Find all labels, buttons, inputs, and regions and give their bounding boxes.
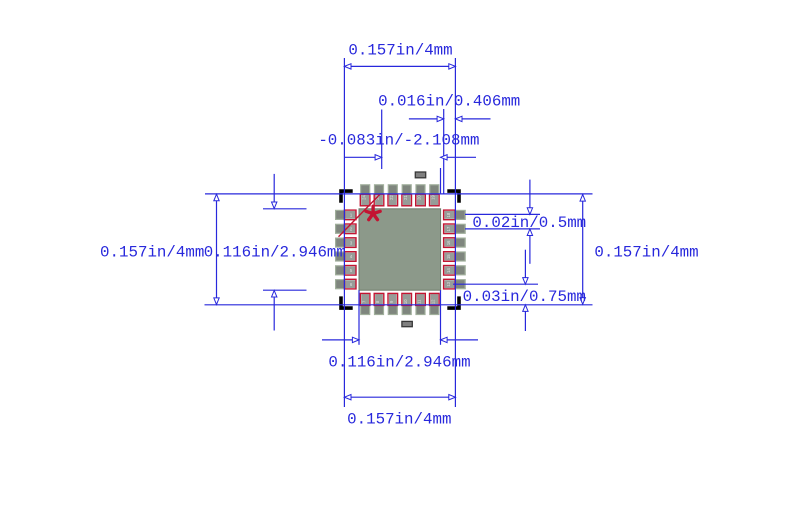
svg-text:10: 10 [403,299,408,304]
svg-text:13: 13 [446,281,451,286]
pin 1 asterisk [366,206,380,219]
svg-text:20: 20 [417,195,422,200]
pad 13 (right) [444,279,466,289]
pad 8 (bottom) [374,293,384,315]
pin 1 indicator diagonal line [339,194,381,237]
extension line x=443.7 [443,109,445,194]
extension line x=440.5 upper [440,168,442,193]
extension line right 4mm x=455.4 [454,58,456,407]
svg-text:16: 16 [446,240,451,245]
extension line x=359.0 lower [358,290,360,345]
svg-text:0.157in/4mm: 0.157in/4mm [100,243,204,261]
pad 14 (right) [444,265,466,275]
dimension -0.083in/-2.108mm [318,131,479,160]
pad 20 (top) [415,184,425,206]
pad 22 (top) [388,184,398,206]
dimension 0.016in/0.406mm [378,92,520,121]
pad 23 (top) [374,184,384,206]
svg-text:-0.083in/-2.108mm: -0.083in/-2.108mm [318,131,479,149]
svg-text:21: 21 [403,195,408,200]
svg-text:0.03in/0.75mm: 0.03in/0.75mm [463,288,586,306]
pad 12 (bottom) [429,293,439,315]
pad 16 (right) [444,238,466,248]
pad 18 (right) [444,210,466,220]
body top extension line [205,193,593,195]
silkscreen corner bracket top-left [339,189,353,202]
pad 6 (left) [335,279,356,289]
silkscreen corner bracket bottom-left [339,296,353,310]
pad 3 (left) [335,238,356,248]
svg-text:19: 19 [431,195,436,200]
EP top extension line [263,208,307,210]
dimension left 0.157in/4mm [100,194,219,304]
pad 10 (bottom) [402,293,412,315]
extension line left 4mm x=344.4 [343,58,345,407]
svg-text:24: 24 [361,195,366,200]
pad 11 (bottom) [415,293,425,315]
exposed pad EP [359,209,441,290]
svg-text:0.157in/4mm: 0.157in/4mm [348,42,452,60]
svg-text:17: 17 [446,226,451,231]
pad 21 (top) [402,184,412,206]
pad 5 (left) [335,265,356,275]
pad 1 (left) [335,210,356,220]
svg-text:0.157in/4mm: 0.157in/4mm [594,243,698,261]
svg-text:0.116in/2.946mm: 0.116in/2.946mm [328,354,470,372]
dimension bottom 0.157in/4mm [344,395,455,429]
pad 2 (left) [335,224,356,234]
svg-text:0.116in/2.946mm: 0.116in/2.946mm [204,243,346,261]
extension line x=381.7 [381,110,383,170]
bottom fiducial marker [402,321,412,326]
svg-text:18: 18 [446,212,451,217]
svg-text:0.157in/4mm: 0.157in/4mm [347,410,451,428]
top fiducial marker [415,172,425,178]
svg-text:12: 12 [431,299,436,304]
dimension bottom 0.116in/2.946mm [322,337,478,371]
pad 4 (left) [335,251,356,261]
svg-text:0.016in/0.406mm: 0.016in/0.406mm [378,92,520,110]
EP bottom extension line [263,289,307,291]
silkscreen corner bracket bottom-right [447,296,461,310]
svg-text:11: 11 [417,299,422,304]
pad 19 (top) [429,184,439,206]
pad 24 (top) [360,184,370,206]
dimension 0.02in/0.5mm [465,180,586,264]
dimension left 0.116in/2.946mm [204,174,346,331]
pad 17 (right) [444,224,466,234]
pad 9 (bottom) [388,293,398,315]
silkscreen corner bracket top-right [447,189,461,202]
svg-text:22: 22 [389,195,394,200]
body bottom extension line [205,304,593,306]
extension line x=440.5 lower [440,290,442,345]
svg-text:15: 15 [446,254,451,259]
dimension right 0.157in/4mm [580,195,699,305]
dimension 0.03in/0.75mm [453,250,586,331]
pad 7 (bottom) [360,293,370,315]
svg-text:14: 14 [446,268,451,273]
dimension top 0.157in/4mm [344,42,455,70]
pad 15 (right) [444,251,466,261]
